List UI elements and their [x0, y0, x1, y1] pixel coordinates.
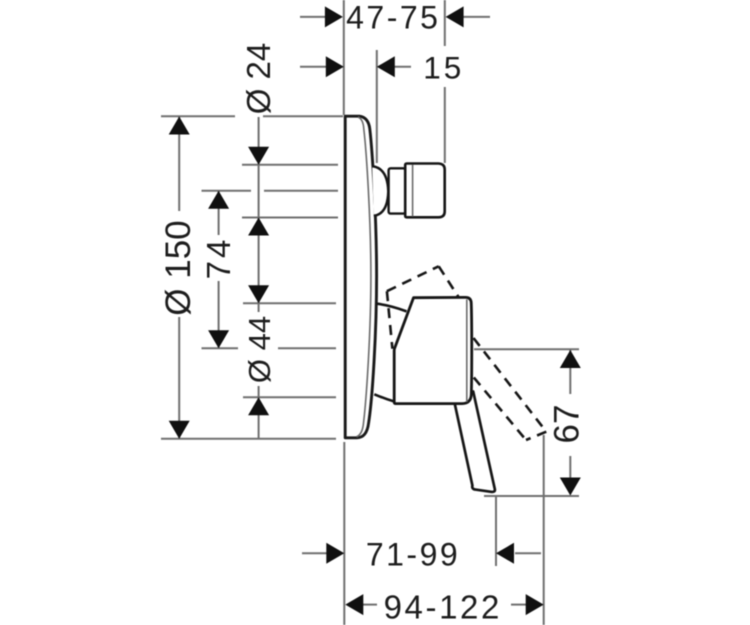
svg-text:15: 15: [423, 49, 464, 85]
svg-text:94-122: 94-122: [384, 589, 502, 625]
svg-text:74: 74: [200, 237, 237, 280]
svg-text:Ø 24: Ø 24: [240, 43, 277, 115]
svg-text:67: 67: [548, 405, 587, 444]
svg-text:Ø 44: Ø 44: [242, 316, 277, 383]
svg-text:Ø 150: Ø 150: [159, 220, 198, 315]
svg-text:47-75: 47-75: [346, 0, 440, 36]
svg-text:71-99: 71-99: [366, 537, 460, 573]
